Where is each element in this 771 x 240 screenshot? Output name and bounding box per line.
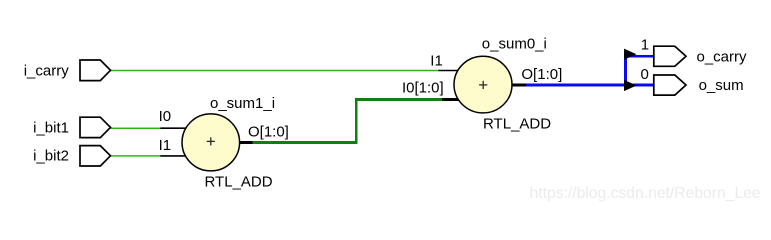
svg-text:i_carry: i_carry [24,63,70,80]
svg-text:I0[1:0]: I0[1:0] [402,80,444,97]
svg-text:o_sum0_i: o_sum0_i [482,35,547,52]
svg-text:I1: I1 [430,52,443,69]
svg-text:O[1:0]: O[1:0] [521,66,562,83]
svg-text:O[1:0]: O[1:0] [248,124,289,141]
svg-text:o_sum1_i: o_sum1_i [210,95,275,112]
svg-text:1: 1 [641,36,649,53]
svg-text:I1: I1 [159,137,172,154]
svg-text:i_bit2: i_bit2 [33,147,69,164]
svg-text:RTL_ADD: RTL_ADD [205,173,273,190]
svg-text:i_bit1: i_bit1 [33,120,69,137]
svg-text:o_sum: o_sum [699,77,744,94]
svg-text:o_carry: o_carry [697,49,748,66]
svg-text:0: 0 [641,66,649,83]
svg-text:RTL_ADD: RTL_ADD [483,115,551,132]
svg-text:I0: I0 [159,108,172,125]
svg-text:https://blog.csdn.net/Reborn_L: https://blog.csdn.net/Reborn_Lee [530,185,761,202]
